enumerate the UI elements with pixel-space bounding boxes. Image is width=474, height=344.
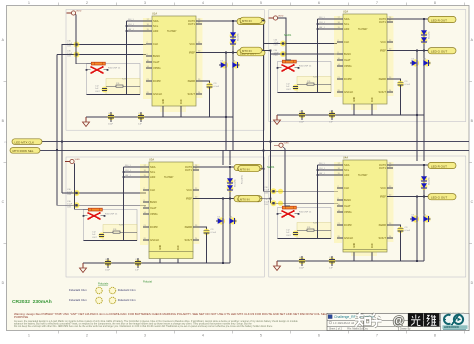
wire pwr1 feed bbox=[76, 14, 91, 64]
watermark box wei bbox=[424, 313, 440, 327]
svg-text:Fiducial1 C1m: Fiducial1 C1m bbox=[69, 288, 88, 292]
junction b2 portB bbox=[270, 50, 272, 52]
svg-text:MTX IN: MTX IN bbox=[242, 19, 251, 23]
logo dot bbox=[458, 318, 462, 322]
container box block4 bbox=[269, 156, 466, 277]
wire b2 drop B bbox=[423, 114, 425, 150]
wire pwr2 feed bbox=[278, 18, 291, 60]
svg-text:Fiducials: Fiducials bbox=[98, 282, 109, 286]
title doc icon bbox=[328, 315, 332, 319]
LED pair U1 bbox=[219, 60, 240, 68]
wire b4 riser B bbox=[423, 150, 425, 161]
b2 port in B bbox=[240, 47, 262, 53]
svg-text:CR2032 230mAh: CR2032 230mAh bbox=[12, 299, 52, 305]
logo cell bg bbox=[441, 314, 469, 331]
wire b1 in B bbox=[57, 54, 146, 56]
fiducial mark 3 bbox=[96, 297, 102, 303]
b4 port in B bbox=[238, 196, 260, 202]
watermark char hu bbox=[372, 314, 382, 327]
power VLED block3 bbox=[65, 159, 80, 164]
junction mid B bus bbox=[270, 141, 272, 143]
wire b4 in B bbox=[271, 202, 339, 204]
container box block1 bbox=[66, 10, 264, 131]
wire b2 portA stub bbox=[262, 19, 264, 21]
block4 input pad B bbox=[264, 199, 277, 206]
svg-text:5: 5 bbox=[260, 1, 262, 5]
svg-text:2: 2 bbox=[86, 1, 88, 5]
svg-text:3: 3 bbox=[144, 334, 146, 338]
wire b2 portB stub bbox=[262, 49, 271, 51]
block1 input pad A bbox=[67, 40, 80, 47]
logo minus bbox=[444, 318, 446, 320]
junction rail B bus bbox=[56, 149, 58, 151]
border ticks columns bbox=[57, 3, 59, 6]
block3 input pad A bbox=[67, 189, 80, 196]
border ticks rows bbox=[4, 80, 7, 82]
bus port MATRIX_ROW_SEL bbox=[10, 148, 40, 154]
svg-text:ARDUINO: ARDUINO bbox=[444, 325, 460, 329]
svg-text:3: 3 bbox=[144, 1, 146, 5]
wire b1 in A bbox=[62, 44, 146, 46]
b4 port in A bbox=[238, 166, 260, 172]
rev icon bbox=[329, 321, 332, 324]
title row divider 1 bbox=[327, 319, 469, 321]
power VLED block4 bbox=[274, 143, 289, 148]
svg-text:4: 4 bbox=[202, 334, 204, 338]
title row divider 2 bbox=[327, 325, 469, 327]
svg-text:PURPOSE: PURPOSE bbox=[14, 315, 28, 319]
LED pair U3 bbox=[216, 216, 237, 224]
svg-text:MTX IN: MTX IN bbox=[242, 49, 251, 53]
block4 halo A2 bbox=[278, 189, 283, 194]
svg-text:MTX IN: MTX IN bbox=[240, 167, 249, 171]
block3 input pad B bbox=[67, 201, 80, 208]
svg-text:connect with electronics and: connect with electronics and bbox=[442, 312, 465, 315]
container box block3 bbox=[66, 157, 264, 277]
power VLED block1 bbox=[67, 10, 82, 15]
svg-text:1.0 2021-06-13 A4: 1.0 2021-06-13 A4 bbox=[333, 322, 355, 325]
svg-text:NetR4: NetR4 bbox=[267, 165, 275, 169]
wire pwr4 feed bbox=[283, 147, 290, 206]
svg-text:2: 2 bbox=[86, 334, 88, 338]
bus port LED_MATRIX_CLK bbox=[5, 139, 42, 145]
wire b2 in A bbox=[264, 43, 338, 45]
svg-text:U4A: U4A bbox=[343, 156, 348, 160]
svg-text:5: 5 bbox=[260, 334, 262, 338]
mid rail B bbox=[270, 50, 272, 203]
block4 input pad A bbox=[264, 187, 277, 194]
svg-text:8: 8 bbox=[434, 1, 436, 5]
LED pair U2 bbox=[410, 58, 431, 66]
title col divider logo bbox=[439, 313, 441, 330]
left rail A bbox=[61, 44, 63, 193]
logo wordmark bbox=[443, 325, 468, 329]
svg-text:1: 1 bbox=[28, 1, 30, 5]
wire b2 in B bbox=[271, 53, 339, 55]
svg-text:U3A: U3A bbox=[149, 158, 154, 162]
svg-text:Fiducial1 C1m: Fiducial1 C1m bbox=[118, 288, 137, 292]
watermark box guang bbox=[408, 313, 424, 327]
fiducial mark 1 bbox=[96, 287, 102, 293]
junction b4 portB bbox=[270, 198, 272, 200]
IC U3 extension bbox=[149, 252, 193, 259]
watermark zhihu bbox=[355, 313, 439, 328]
left rail B bbox=[56, 55, 58, 206]
LED driver block U4 bbox=[274, 160, 457, 271]
b2 port in A bbox=[240, 17, 262, 23]
bus net CLK bbox=[12, 141, 469, 143]
svg-text:Do not deep the end-loop with: Do not deep the end-loop with other this… bbox=[14, 325, 273, 328]
svg-text:7: 7 bbox=[376, 334, 378, 338]
watermark char zhi bbox=[355, 313, 370, 326]
svg-text:LED MTX CLK: LED MTX CLK bbox=[15, 140, 35, 144]
svg-text:MTX ROW SEL: MTX ROW SEL bbox=[13, 149, 34, 153]
wire b4 riser A bbox=[416, 150, 418, 161]
junction rail A bus bbox=[61, 141, 63, 143]
wire b4 portB stub bbox=[260, 198, 271, 200]
fiducial mark 4 bbox=[109, 297, 115, 303]
svg-text:Warning: design files PCBWAY ": Warning: design files PCBWAY "PCB" 2NC "… bbox=[14, 312, 332, 316]
title block frame bbox=[327, 313, 469, 330]
svg-text:Fiducial: Fiducial bbox=[143, 280, 152, 284]
svg-text:Row4(Y): Row4(Y) bbox=[242, 175, 244, 184]
svg-text:6: 6 bbox=[318, 1, 320, 5]
LED pair U4 bbox=[410, 214, 431, 222]
svg-text:Fiducial1 C1m: Fiducial1 C1m bbox=[118, 298, 137, 302]
svg-text:U1A: U1A bbox=[152, 12, 157, 16]
svg-text:U2A: U2A bbox=[343, 10, 348, 14]
junction b4 portA bbox=[263, 168, 265, 170]
wire pwr3 feed bbox=[74, 163, 88, 209]
wire b2 drop A bbox=[416, 114, 418, 150]
wire b4 in A bbox=[264, 190, 339, 192]
block2 input pad B bbox=[274, 50, 287, 57]
svg-text:@: @ bbox=[393, 316, 404, 328]
mid rail A bbox=[263, 20, 265, 191]
title col divider mid2 bbox=[397, 320, 399, 330]
junction mid A bus bbox=[263, 150, 265, 152]
wire b3 in B bbox=[57, 204, 146, 206]
wire b4 portA stub bbox=[260, 168, 264, 170]
logo slash bbox=[452, 314, 460, 326]
LED driver block U1 bbox=[83, 16, 266, 127]
svg-text:6: 6 bbox=[318, 334, 320, 338]
junction b2 portA bbox=[263, 20, 265, 22]
block4 halo B2 bbox=[278, 201, 283, 206]
LED driver block U3 bbox=[80, 162, 263, 273]
power VLED block2 bbox=[269, 15, 284, 20]
svg-text:4: 4 bbox=[202, 1, 204, 5]
svg-text:8: 8 bbox=[434, 334, 436, 338]
container box block2 bbox=[269, 10, 466, 122]
wire b1 drop B bbox=[232, 117, 234, 150]
svg-text:1: 1 bbox=[28, 334, 30, 338]
title col divider mid bbox=[362, 320, 364, 330]
svg-text:Drawn By:: Drawn By: bbox=[400, 327, 411, 330]
wire b1 drop A bbox=[225, 117, 227, 150]
svg-text:Sheet 1 of 2 File: Matr: Sheet 1 of 2 File: Matrix.SchDoc bbox=[329, 327, 369, 330]
bus net ROW bbox=[10, 150, 469, 152]
wire b3 riser A bbox=[222, 150, 224, 165]
block2 input pad A bbox=[274, 39, 287, 46]
logo mark bbox=[444, 315, 463, 324]
svg-text:MTX IN: MTX IN bbox=[240, 197, 249, 201]
wire b3 riser B bbox=[229, 150, 231, 165]
fiducial mark 2 bbox=[109, 287, 115, 293]
svg-text:7: 7 bbox=[376, 1, 378, 5]
svg-text:Fiducial1 C1m: Fiducial1 C1m bbox=[69, 298, 88, 302]
LED driver block U2 bbox=[274, 14, 457, 125]
wire b3 in A bbox=[62, 192, 146, 194]
svg-text:NetR1: NetR1 bbox=[284, 33, 292, 37]
block1 input pad B bbox=[67, 50, 80, 57]
IC U4 extension bbox=[343, 250, 387, 253]
